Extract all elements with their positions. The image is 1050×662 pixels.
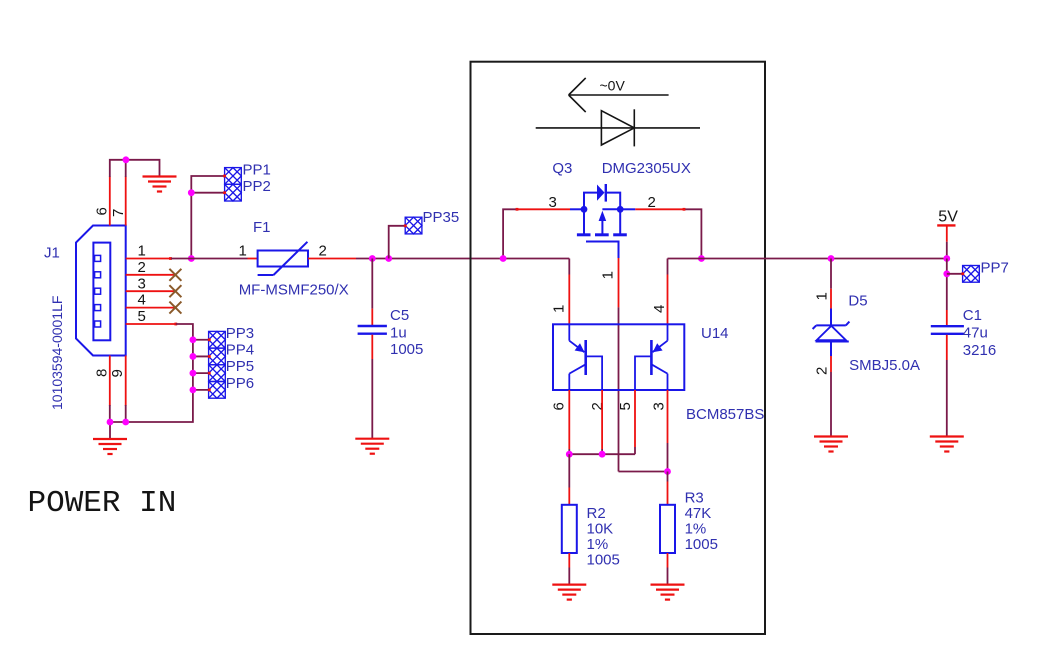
- svg-text:10103594-0001LF: 10103594-0001LF: [49, 296, 65, 410]
- pin end PP2: [223, 191, 226, 194]
- junction pin2 base: [599, 451, 606, 458]
- svg-text:1005: 1005: [390, 341, 423, 358]
- wire main 5V bus right segment: [668, 258, 947, 260]
- junction PP net to pin1 bus: [188, 255, 195, 262]
- current direction arrow: [569, 78, 669, 112]
- wire U14 pin2 down: [601, 390, 603, 454]
- svg-text:SMBJ5.0A: SMBJ5.0A: [849, 357, 920, 374]
- svg-text:2: 2: [589, 402, 606, 410]
- wire F1 pin2 red stub: [308, 258, 356, 260]
- diode symbol (legend): [536, 109, 700, 146]
- svg-text:PP4: PP4: [226, 342, 254, 359]
- svg-text:PP3: PP3: [226, 325, 254, 342]
- svg-text:DMG2305UX: DMG2305UX: [602, 160, 691, 177]
- U14 right emitter arrow: [653, 343, 663, 352]
- wire J1 pin2: [126, 274, 176, 276]
- wire pin8/pin9 to ground: [110, 405, 126, 422]
- svg-text:Q3: Q3: [552, 160, 572, 177]
- svg-text:4: 4: [651, 305, 668, 313]
- svg-text:47K: 47K: [685, 505, 712, 522]
- wire U14 pin6 down: [568, 390, 570, 454]
- no-connect X pin2: [169, 269, 181, 281]
- wire GND net from pins 6,7: [110, 160, 160, 177]
- ground (R2): [552, 585, 586, 600]
- wire F1 pin1 stub: [248, 258, 258, 260]
- svg-text:PP7: PP7: [981, 260, 1009, 277]
- wire J1 pin4: [126, 307, 176, 309]
- svg-text:47u: 47u: [963, 325, 988, 342]
- no-connect X pin4: [169, 302, 181, 314]
- wire J1 pin9 red stub: [125, 356, 127, 406]
- junction PP3 tee: [190, 336, 197, 343]
- svg-text:5: 5: [617, 402, 634, 410]
- fuse F1: [258, 242, 308, 275]
- pin end PP5: [208, 372, 211, 375]
- wire Q3 pin3: [503, 208, 570, 259]
- junction PP5 tee: [190, 370, 197, 377]
- svg-text:7: 7: [110, 209, 127, 217]
- ground (top, J1 shield): [143, 177, 177, 192]
- wire pin1 to F1: [171, 258, 248, 260]
- capacitor C5: [358, 259, 387, 439]
- Q3 substrate arrow: [599, 211, 607, 221]
- svg-text:1: 1: [814, 292, 831, 300]
- wire U14 pin5 down: [634, 390, 636, 454]
- wire 5V down to C1: [946, 259, 948, 311]
- svg-text:2: 2: [814, 367, 831, 375]
- wire J1 pin5 red stub: [126, 323, 176, 325]
- test point PP1: [225, 168, 242, 185]
- svg-text:PP5: PP5: [226, 358, 254, 375]
- svg-text:1: 1: [551, 305, 568, 313]
- svg-text:3: 3: [138, 275, 146, 292]
- junction Q3 pin2 bus: [698, 255, 705, 262]
- svg-text:POWER IN: POWER IN: [28, 486, 177, 521]
- pin end J1 pin1: [169, 257, 172, 260]
- test point PP5: [209, 365, 226, 382]
- svg-text:8: 8: [94, 369, 111, 377]
- wire Q3 pin2: [635, 208, 701, 259]
- junction PP2 tee: [188, 189, 195, 196]
- svg-text:1u: 1u: [390, 325, 407, 342]
- Q3 body diode: [597, 185, 605, 201]
- svg-text:C1: C1: [963, 307, 982, 324]
- power 5V symbol: [937, 225, 955, 258]
- svg-text:9: 9: [109, 369, 126, 377]
- svg-text:1: 1: [138, 243, 146, 260]
- svg-text:5: 5: [138, 308, 146, 325]
- test point PP7: [963, 266, 980, 283]
- svg-text:BCM857BS: BCM857BS: [686, 406, 764, 423]
- test point PP2: [225, 184, 242, 201]
- U14 left emitter arrow: [575, 343, 585, 352]
- U14 left transistor: [569, 324, 602, 390]
- svg-text:F1: F1: [253, 219, 271, 236]
- svg-text:MF-MSMF250/X: MF-MSMF250/X: [239, 282, 349, 299]
- svg-text:1%: 1%: [587, 536, 609, 553]
- wire bus drop to U14 pin4: [667, 259, 669, 325]
- wire main 5V bus left segment: [356, 258, 569, 260]
- svg-text:2: 2: [138, 259, 146, 276]
- junction PP6 tee: [190, 386, 197, 393]
- wire Q3 gate down: [619, 258, 668, 472]
- diode D5 (zener SMBJ5.0A): [813, 259, 850, 437]
- block border box: [471, 62, 766, 634]
- junction pin8 gnd: [107, 419, 114, 426]
- svg-text:U14: U14: [701, 325, 729, 342]
- ground (R3): [651, 585, 685, 600]
- test point PP3: [209, 331, 226, 348]
- junction pin6/pin7: [123, 156, 130, 163]
- junction C5 tee: [369, 255, 376, 262]
- resistor R2: [562, 454, 577, 584]
- junction 5V bus end: [943, 255, 950, 262]
- svg-text:6: 6: [94, 207, 111, 215]
- svg-text:2: 2: [319, 243, 327, 260]
- pin end PP7: [961, 272, 964, 275]
- junction PP4 tee: [190, 353, 197, 360]
- svg-text:R2: R2: [587, 505, 606, 522]
- junction pin9 gnd: [122, 419, 129, 426]
- connector J1 body: [76, 226, 126, 356]
- svg-text:PP6: PP6: [226, 375, 254, 392]
- Q3 channel segments: [577, 233, 627, 236]
- wire U14 pin3 down: [667, 390, 669, 472]
- pin end PP6: [208, 388, 211, 391]
- pin end PP3: [208, 338, 211, 341]
- wire PP7 stub: [947, 273, 963, 275]
- svg-text:6: 6: [551, 402, 568, 410]
- Q3 source/drain junction dots: [581, 206, 588, 213]
- ground (C5): [355, 439, 389, 454]
- ground (D5): [814, 437, 848, 452]
- wire pin5 to PP3-PP6: [110, 324, 209, 439]
- resistor R3: [660, 472, 675, 585]
- wire PP35 stub: [389, 226, 406, 259]
- wire J1 pin8 red stub: [109, 356, 111, 406]
- pin end PP35: [404, 224, 407, 227]
- junction R2 top: [566, 451, 573, 458]
- svg-text:C5: C5: [390, 307, 409, 324]
- no-connect X pin3: [169, 285, 181, 297]
- svg-text:1%: 1%: [685, 521, 707, 538]
- svg-text:1005: 1005: [587, 552, 620, 569]
- svg-text:1005: 1005: [685, 536, 718, 553]
- wire PP1/PP2 net: [191, 176, 224, 259]
- svg-text:PP35: PP35: [423, 209, 460, 226]
- wire bus drop to U14 pin1: [568, 259, 570, 325]
- ground (J1 bottom): [93, 439, 127, 454]
- junction Q3 pin3 bus: [500, 255, 507, 262]
- junction PP7 tee: [943, 270, 950, 277]
- test point PP35: [405, 217, 422, 234]
- ground (C1): [930, 437, 964, 452]
- pin end J1 pin5: [174, 323, 177, 326]
- svg-text:PP2: PP2: [243, 178, 271, 195]
- junction D5 tee: [828, 255, 835, 262]
- svg-text:1: 1: [239, 243, 247, 260]
- capacitor C1: [931, 310, 964, 437]
- svg-text:3: 3: [651, 402, 668, 410]
- pin end PP4: [208, 355, 211, 358]
- svg-text:PP1: PP1: [243, 162, 271, 179]
- transistor Q3 (P-MOSFET): [570, 193, 635, 258]
- wire J1 pin6 red stub: [109, 176, 111, 225]
- wire J1 pin3: [126, 290, 176, 292]
- wire J1 pin7 red stub: [125, 176, 127, 225]
- svg-text:3216: 3216: [963, 342, 996, 359]
- svg-text:5V: 5V: [938, 209, 958, 226]
- wire base net horizontal: [569, 453, 635, 455]
- U14 right transistor: [635, 324, 668, 390]
- svg-text:D5: D5: [848, 293, 867, 310]
- test point PP4: [209, 348, 226, 365]
- junction R3 top: [664, 468, 671, 475]
- op-amp U14 (dual PNP BCM857BS) box: [553, 324, 684, 390]
- wire J1 pin1 red stub: [126, 258, 171, 260]
- svg-text:~0V: ~0V: [600, 78, 626, 94]
- svg-text:R3: R3: [685, 490, 704, 507]
- svg-text:10K: 10K: [587, 521, 614, 538]
- svg-text:1: 1: [600, 271, 617, 279]
- test point PP6: [209, 382, 226, 399]
- pin end PP1: [223, 175, 226, 178]
- junction PP35 tee: [385, 255, 392, 262]
- svg-text:4: 4: [138, 292, 146, 309]
- svg-text:J1: J1: [44, 245, 60, 262]
